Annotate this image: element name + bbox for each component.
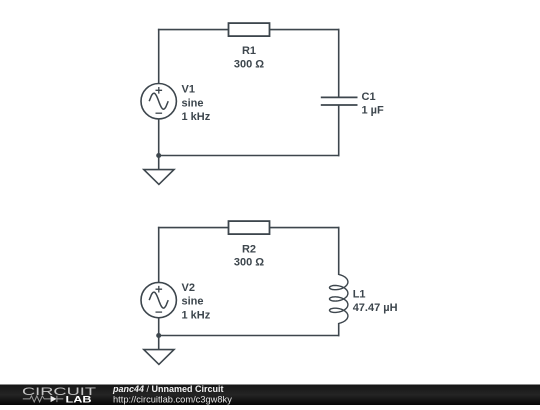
ground symbol: top circuit triangle: [144, 170, 174, 185]
svg-text:1 kHz: 1 kHz: [182, 309, 211, 321]
V1 sine waveform: [149, 93, 168, 109]
wire: bottom circuit, bottom horizontal: [159, 335, 340, 337]
resistor R2 body: [229, 221, 270, 234]
resistor R1 body: [229, 23, 270, 36]
ground symbol: bottom circuit stub: [158, 336, 160, 350]
wire: top circuit, top-left horizontal: [158, 29, 229, 31]
capacitor C1 top plate: [321, 96, 358, 98]
svg-text:300 Ω: 300 Ω: [234, 59, 264, 71]
V1 plus sign: [156, 87, 163, 94]
svg-text:R2: R2: [242, 244, 256, 256]
node: bottom circuit ground junction dot: [156, 333, 161, 338]
wire: bottom circuit, left vertical (top of V2): [158, 227, 160, 283]
wire: top circuit, bottom horizontal: [159, 155, 340, 157]
V1 minus sign: [156, 112, 163, 114]
svg-text:1 µF: 1 µF: [362, 104, 385, 116]
wire: top circuit, right vertical (top of C1): [338, 29, 340, 97]
svg-text:47.47 µH: 47.47 µH: [353, 302, 398, 314]
capacitor C1 bottom plate: [321, 104, 358, 106]
svg-text:1 kHz: 1 kHz: [182, 111, 211, 123]
wire: bottom circuit, top-right horizontal: [269, 227, 340, 229]
V2 plus sign: [156, 286, 163, 293]
wire: top circuit, right vertical (bottom of C1): [338, 106, 340, 157]
wire: top circuit, left vertical (top of V1): [158, 29, 160, 84]
svg-text:http://circuitlab.com/c3gw8ky: http://circuitlab.com/c3gw8ky: [113, 394, 232, 404]
svg-text:LAB: LAB: [66, 395, 92, 405]
svg-text:300 Ω: 300 Ω: [234, 257, 264, 269]
voltage source V1 circle: [141, 84, 176, 119]
svg-text:C1: C1: [362, 91, 376, 103]
wire: bottom circuit, right vertical (bottom of L1): [338, 323, 340, 336]
svg-text:sine: sine: [182, 296, 204, 308]
ground symbol: bottom circuit triangle: [144, 350, 174, 365]
svg-text:R1: R1: [242, 45, 256, 57]
svg-text:sine: sine: [182, 97, 204, 109]
node: top circuit ground junction dot: [156, 153, 161, 158]
ground symbol: top circuit stub: [158, 156, 160, 170]
CircuitLab logo schematic diode: [51, 396, 57, 402]
V2 sine waveform: [149, 292, 168, 308]
wire: bottom circuit, top-left horizontal: [158, 227, 229, 229]
svg-text:V2: V2: [182, 282, 195, 294]
footer bar background: [0, 385, 540, 406]
CircuitLab logo schematic squiggle (resistor zigzag): [23, 396, 51, 402]
wire: top circuit, left vertical (bottom of V1): [158, 118, 160, 155]
svg-text:L1: L1: [353, 288, 366, 300]
svg-text:panc44 / Unnamed Circuit: panc44 / Unnamed Circuit: [112, 384, 224, 394]
inductor L1 coil: [330, 275, 348, 324]
V2 minus sign: [156, 311, 163, 313]
wire: bottom circuit, left vertical (bottom of V2): [158, 317, 160, 335]
wire: bottom circuit, right vertical (top of L1): [338, 227, 340, 275]
svg-text:V1: V1: [182, 84, 195, 96]
wire: top circuit, top-right horizontal: [269, 29, 340, 31]
voltage source V2 circle: [141, 282, 176, 317]
